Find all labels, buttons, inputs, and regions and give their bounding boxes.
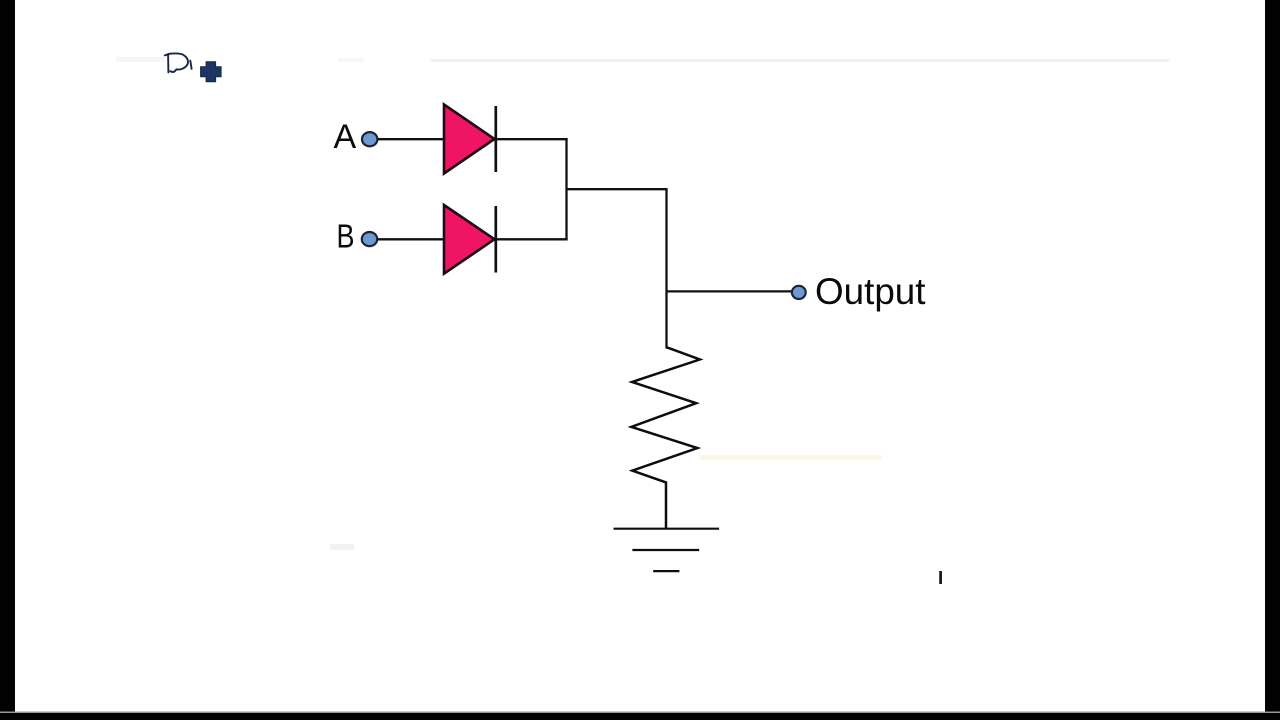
svg-text:Output: Output [815, 271, 926, 312]
stray tick mark [939, 571, 942, 584]
resistor R1 [631, 348, 700, 529]
node A terminal [362, 132, 377, 146]
diode D1 [444, 105, 495, 174]
node B terminal [362, 232, 377, 246]
frame left strip [0, 0, 15, 720]
plus icon [201, 62, 222, 82]
faint artifact yellow line [700, 455, 882, 460]
faint artifact bottom-left [330, 544, 354, 550]
wire junction vertical joining D1 and D2 [565, 138, 567, 240]
frame right strip [1265, 0, 1280, 720]
diode D2 [444, 205, 495, 274]
frame bottom bar [0, 713, 1280, 720]
wire output horizontal [667, 290, 793, 292]
wire D2 cathode [496, 238, 568, 240]
diode D1 cathode bar [494, 106, 497, 172]
node Output terminal [792, 286, 806, 299]
wire B input [377, 238, 444, 240]
handwritten D scribble [165, 53, 192, 72]
svg-text:A: A [334, 118, 357, 156]
diode D2 cathode bar [494, 206, 497, 273]
wire output vertical [665, 189, 667, 348]
wire mid horizontal [567, 188, 668, 190]
wire D1 cathode [496, 138, 568, 140]
wire A input [378, 138, 445, 140]
svg-text:B: B [337, 218, 355, 255]
faint artifact streak top [116, 57, 1170, 62]
ground [614, 529, 720, 571]
